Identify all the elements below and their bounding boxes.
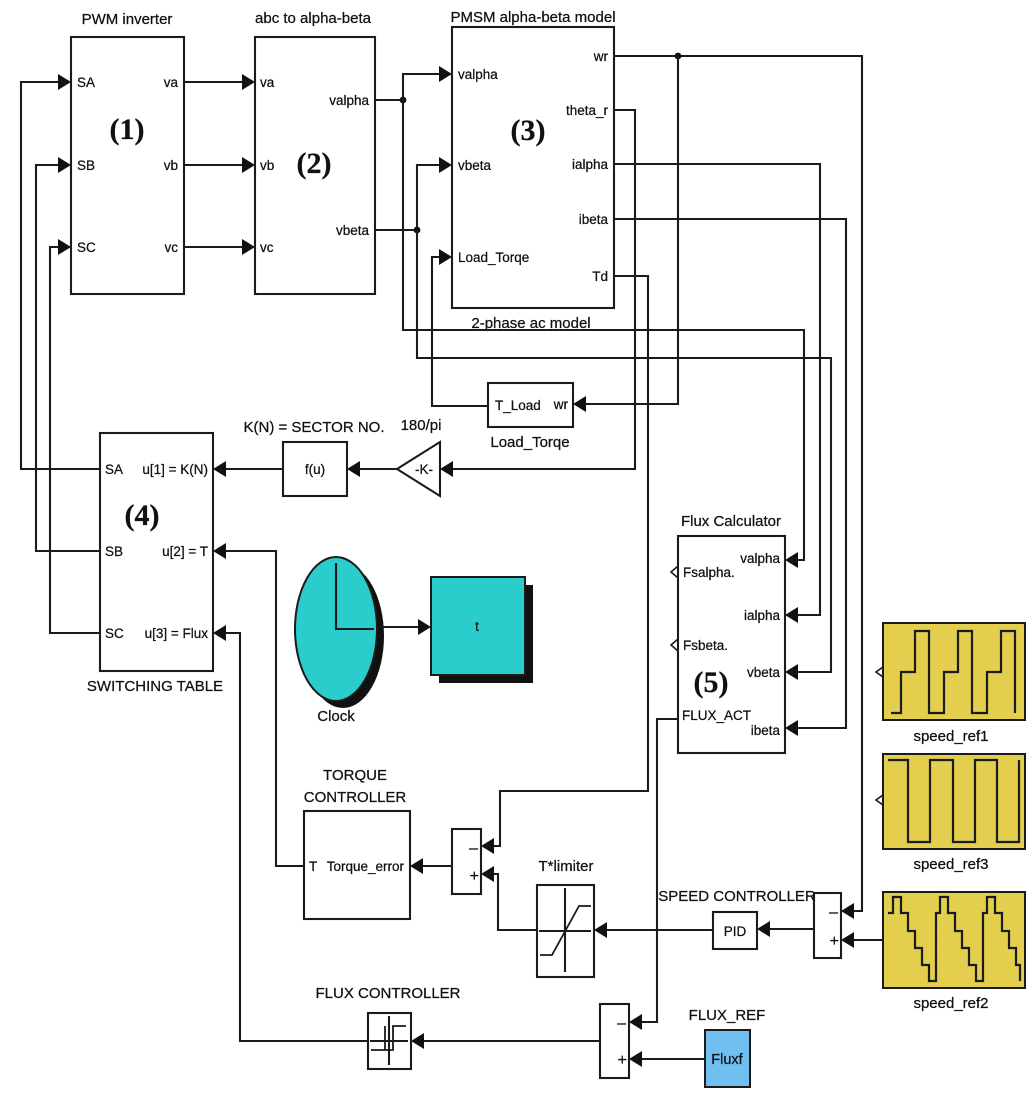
svg-text:valpha: valpha <box>329 93 369 108</box>
svg-text:Load_Torqe: Load_Torqe <box>490 434 569 451</box>
svg-text:-K-: -K- <box>415 462 433 477</box>
svg-text:FLUX_REF: FLUX_REF <box>689 1007 766 1024</box>
arrow into va <box>242 74 255 90</box>
svg-text:SC: SC <box>105 626 124 641</box>
wire f(u) out to switching table u1 <box>224 468 283 470</box>
arrow into U3 valpha <box>439 66 452 82</box>
sum block flux <box>600 1004 629 1078</box>
svg-text:+: + <box>830 933 839 950</box>
wire theta_r to gain -K- <box>451 110 635 469</box>
wire Fluxf to flux sum plus <box>640 1058 705 1060</box>
svg-text:Torque_error: Torque_error <box>327 859 405 874</box>
block torque controller <box>304 767 410 919</box>
svg-text:SB: SB <box>105 544 123 559</box>
arrow into SB <box>58 157 71 173</box>
svg-text:T*limiter: T*limiter <box>539 858 594 875</box>
arrow into FluxCalc valpha <box>785 552 798 568</box>
arrow into U3 Load_Torqe <box>439 249 452 265</box>
arrow into gain <box>440 461 453 477</box>
arrow into PID <box>757 921 770 937</box>
svg-text:f(u): f(u) <box>305 462 325 477</box>
svg-text:SB: SB <box>77 158 95 173</box>
arrow into u1 <box>213 461 226 477</box>
wire ialpha down to flux calculator <box>614 164 820 615</box>
arrow into SA <box>58 74 71 90</box>
source speed_ref2 <box>883 892 1025 1012</box>
port glyph Fsbeta <box>671 639 678 651</box>
wire clock to display <box>377 626 420 628</box>
arrow into speed sum plus <box>841 932 854 948</box>
display t block <box>431 577 525 675</box>
svg-text:vb: vb <box>164 158 178 173</box>
wire SA: switching table out to PWM inverter SA <box>21 82 100 469</box>
wire valpha branch down to flux calculator <box>403 100 804 560</box>
svg-text:–: – <box>469 840 478 857</box>
wire va <box>184 81 244 83</box>
arrow into speed sum minus <box>841 903 854 919</box>
sum block torque <box>452 829 481 894</box>
svg-text:vc: vc <box>260 240 274 255</box>
block T*limiter saturation <box>537 858 594 977</box>
block U1 PWM inverter <box>71 11 184 294</box>
svg-text:(5): (5) <box>694 666 729 699</box>
arrow into u3 <box>213 625 226 641</box>
svg-text:T_Load: T_Load <box>495 398 541 413</box>
arrow into relay <box>411 1033 424 1049</box>
svg-text:va: va <box>260 75 275 90</box>
svg-text:ialpha: ialpha <box>744 608 781 623</box>
wire PID out to T*limiter <box>605 929 713 931</box>
display t shadow <box>439 585 533 683</box>
arrow into Load_Torqe wr <box>573 396 586 412</box>
arrow into torque sum plus <box>481 866 494 882</box>
svg-text:PWM inverter: PWM inverter <box>82 11 173 28</box>
block fcn f(u) <box>244 419 385 496</box>
svg-text:+: + <box>618 1052 627 1069</box>
svg-text:SPEED CONTROLLER: SPEED CONTROLLER <box>658 888 816 905</box>
svg-text:PMSM alpha-beta model: PMSM alpha-beta model <box>450 9 615 26</box>
wire ibeta down to flux calculator <box>614 219 846 728</box>
svg-text:Clock: Clock <box>317 708 355 725</box>
wire speed sum out to PID <box>768 928 814 930</box>
svg-text:–: – <box>829 904 838 921</box>
svg-text:ialpha: ialpha <box>572 157 609 172</box>
arrow into T*limiter <box>594 922 607 938</box>
svg-text:wr: wr <box>553 397 569 412</box>
svg-text:vbeta: vbeta <box>458 158 492 173</box>
svg-text:abc to alpha-beta: abc to alpha-beta <box>255 10 372 27</box>
svg-text:SC: SC <box>77 240 96 255</box>
svg-text:vc: vc <box>165 240 179 255</box>
arrow into vb <box>242 157 255 173</box>
wire Load_Torqe output up to U3 Load_Torqe input <box>432 257 488 406</box>
arrow into flux sum plus <box>629 1051 642 1067</box>
svg-text:wr: wr <box>593 49 609 64</box>
svg-text:vbeta: vbeta <box>747 665 781 680</box>
svg-text:Fsbeta.: Fsbeta. <box>683 638 728 653</box>
sum block speed <box>814 893 841 958</box>
svg-text:speed_ref3: speed_ref3 <box>913 856 988 873</box>
svg-text:theta_r: theta_r <box>566 103 609 118</box>
node vbeta junction <box>414 227 421 234</box>
block relay flux controller <box>368 1013 411 1069</box>
svg-text:K(N) = SECTOR NO.: K(N) = SECTOR NO. <box>244 419 385 436</box>
svg-text:PID: PID <box>724 924 747 939</box>
block U3 PMSM alpha-beta model <box>450 9 615 332</box>
svg-text:t: t <box>475 619 479 634</box>
svg-text:–: – <box>617 1015 626 1032</box>
svg-text:T: T <box>309 859 317 874</box>
svg-text:ibeta: ibeta <box>751 723 781 738</box>
arrow into flux sum minus <box>629 1014 642 1030</box>
svg-text:Flux Calculator: Flux Calculator <box>681 513 781 530</box>
arrow into vc <box>242 239 255 255</box>
wire wr from U3 to right then down to speed sum <box>614 56 862 911</box>
arrow into FluxCalc vbeta <box>785 664 798 680</box>
svg-text:speed_ref2: speed_ref2 <box>913 995 988 1012</box>
wire gain out to f(u) <box>358 468 397 470</box>
svg-text:+: + <box>470 868 479 885</box>
wire T*limiter out to torque sum plus <box>492 874 537 930</box>
svg-text:SA: SA <box>77 75 95 90</box>
wire wr branch down to Load_Torqe <box>584 56 678 404</box>
svg-text:180/pi: 180/pi <box>401 417 442 434</box>
block U4 SWITCHING TABLE <box>87 433 223 695</box>
wire vbeta branch down to flux calculator <box>417 230 831 672</box>
svg-text:TORQUE: TORQUE <box>323 767 387 784</box>
arrow into SC <box>58 239 71 255</box>
svg-text:(2): (2) <box>297 147 332 180</box>
wire vbeta from U2 to U3 with branch <box>375 165 441 230</box>
svg-text:(3): (3) <box>511 114 546 147</box>
svg-text:FLUX_ACT: FLUX_ACT <box>682 708 751 723</box>
wire torque sum out to Torque_error <box>421 865 452 867</box>
block PID <box>713 912 757 949</box>
port glyph Fsalpha <box>671 566 678 578</box>
svg-text:speed_ref1: speed_ref1 <box>913 728 988 745</box>
source speed_ref3 <box>876 754 1025 873</box>
arrow into FluxCalc ibeta <box>785 720 798 736</box>
wire FLUX_ACT down to flux sum minus <box>640 719 678 1022</box>
wire vb <box>184 164 244 166</box>
svg-text:valpha: valpha <box>458 67 498 82</box>
svg-text:vb: vb <box>260 158 274 173</box>
svg-text:Fsalpha.: Fsalpha. <box>683 565 735 580</box>
wire vc <box>184 246 244 248</box>
svg-text:Fluxf: Fluxf <box>711 1052 743 1068</box>
svg-text:ibeta: ibeta <box>579 212 609 227</box>
wire relay out up to switching table u3 <box>224 633 368 1041</box>
arrow into U3 vbeta <box>439 157 452 173</box>
svg-text:va: va <box>164 75 179 90</box>
svg-text:SA: SA <box>105 462 123 477</box>
svg-text:CONTROLLER: CONTROLLER <box>304 789 407 806</box>
svg-text:vbeta: vbeta <box>336 223 370 238</box>
wire flux sum out to relay <box>422 1040 600 1042</box>
arrow into FluxCalc ialpha <box>785 607 798 623</box>
block U5 Flux Calculator <box>671 513 785 753</box>
Clock body <box>295 557 377 725</box>
wire speed_ref2 to speed sum plus <box>852 939 883 941</box>
svg-text:u[3] = Flux: u[3] = Flux <box>145 626 209 641</box>
svg-text:valpha: valpha <box>740 551 780 566</box>
svg-text:FLUX CONTROLLER: FLUX CONTROLLER <box>315 985 460 1002</box>
wire SB: switching table out to PWM inverter SB <box>36 165 100 551</box>
svg-text:(4): (4) <box>125 499 160 532</box>
node valpha junction <box>400 97 407 104</box>
wire valpha from U2 to U3 with branch <box>375 74 441 100</box>
Clock shadow <box>302 564 384 708</box>
svg-text:SWITCHING TABLE: SWITCHING TABLE <box>87 678 223 695</box>
arrow into u2 <box>213 543 226 559</box>
svg-text:u[2] = T: u[2] = T <box>162 544 208 559</box>
node wr junction <box>675 53 682 60</box>
block U2 abc to alpha-beta <box>255 10 375 294</box>
svg-text:Td: Td <box>592 269 608 284</box>
source Fluxf <box>705 1030 750 1087</box>
gain -K- triangle <box>397 417 441 496</box>
svg-text:Load_Torqe: Load_Torqe <box>458 250 529 265</box>
svg-text:(1): (1) <box>110 113 145 146</box>
arrow into display t <box>418 619 431 635</box>
arrow into f(u) <box>347 461 360 477</box>
source speed_ref1 <box>876 623 1025 745</box>
svg-text:u[1] = K(N): u[1] = K(N) <box>142 462 208 477</box>
wire Td down to torque sum minus <box>492 276 648 846</box>
arrow into Torque_error <box>410 858 423 874</box>
block Load_Torqe <box>488 383 573 451</box>
wire T output up to switching table u2 <box>224 551 304 866</box>
arrow into torque sum minus <box>481 838 494 854</box>
wire SC: switching table out to PWM inverter SC <box>50 247 100 633</box>
